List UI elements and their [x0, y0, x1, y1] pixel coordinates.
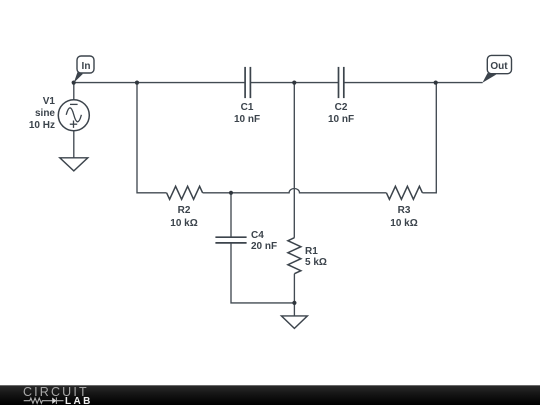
capacitor C1 — [245, 67, 250, 98]
C1 label — [234, 102, 260, 126]
ground below V1 — [60, 158, 88, 171]
node junction dot left branch — [135, 81, 139, 85]
R2 label — [170, 205, 197, 230]
wire center vertical from C1/C2 node down to R1 — [293, 83, 295, 238]
wire C1 to middle node to C2 — [250, 82, 338, 84]
node junction dot ground — [292, 301, 296, 305]
wire C4 bottom to ground node — [231, 243, 294, 303]
CircuitLab logo LAB text — [65, 396, 93, 405]
capacitor C2 — [339, 67, 344, 98]
node junction dot right branch — [434, 81, 438, 85]
wire V1 top — [73, 83, 75, 100]
wire R1 bottom to ground node — [293, 274, 295, 303]
node junction dot In — [72, 81, 76, 85]
wire ground stub below node — [293, 303, 295, 316]
resistor R3 — [386, 186, 422, 199]
wire top-left from In node to C1 — [74, 82, 245, 84]
node junction dot C4 branch — [229, 191, 233, 195]
voltage source V1 — [58, 100, 89, 131]
C4 label — [251, 230, 277, 252]
CircuitLab logo schematic wire — [24, 397, 64, 404]
CircuitLab logo CIRCUIT text — [23, 385, 89, 399]
flag Out text — [491, 61, 508, 72]
flag In text — [81, 61, 90, 72]
resistor R1 — [288, 238, 301, 274]
capacitor C4 — [215, 237, 246, 243]
wire C4 branch down from junction — [230, 193, 232, 237]
wire left vertical from top node down to R2 row — [137, 83, 167, 193]
R3 label — [390, 205, 417, 230]
flag In box — [77, 56, 94, 73]
CircuitLab logo diode — [52, 398, 56, 404]
ground below R1 — [281, 316, 307, 329]
flag In pointer — [74, 72, 83, 83]
wire V1 bottom to ground — [73, 131, 75, 158]
R1 label — [305, 246, 327, 268]
C2 label — [328, 102, 354, 126]
node junction dot center top — [292, 81, 296, 85]
flag Out box — [487, 55, 511, 73]
footer black bar — [0, 385, 540, 405]
wire C2 to Out — [344, 82, 483, 84]
V1 label — [29, 96, 55, 132]
flag Out pointer — [482, 73, 496, 83]
wire R2 to C4 junction and hop over center wire — [203, 189, 387, 193]
wire R3 right end up to top right node — [422, 83, 436, 193]
resistor R2 — [167, 186, 203, 199]
